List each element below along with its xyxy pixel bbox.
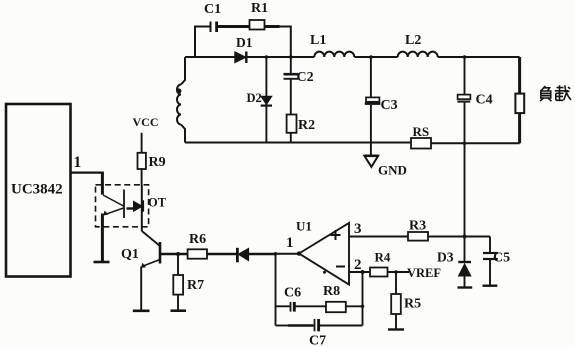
- svg-text:R3: R3: [409, 219, 426, 234]
- svg-text:C3: C3: [381, 98, 398, 113]
- svg-text:3: 3: [354, 221, 362, 237]
- svg-text:C2: C2: [297, 70, 314, 85]
- svg-text:R6: R6: [189, 232, 206, 247]
- svg-text:L2: L2: [405, 33, 421, 48]
- svg-text:R9: R9: [149, 155, 166, 170]
- svg-text:D3: D3: [437, 250, 454, 265]
- svg-text:GND: GND: [378, 163, 407, 178]
- svg-text:VREF: VREF: [407, 266, 441, 280]
- svg-text:R1: R1: [251, 1, 268, 16]
- svg-text:D2: D2: [247, 91, 262, 105]
- svg-text:R4: R4: [375, 250, 391, 265]
- svg-text:C6: C6: [284, 286, 301, 301]
- svg-text:R5: R5: [404, 297, 421, 312]
- svg-text:C1: C1: [204, 2, 221, 17]
- svg-text:L1: L1: [310, 33, 326, 48]
- svg-text:R8: R8: [323, 284, 340, 299]
- svg-text:RS: RS: [413, 124, 430, 139]
- svg-text:1: 1: [286, 235, 294, 251]
- svg-text:D1: D1: [236, 35, 253, 50]
- svg-text:2: 2: [354, 257, 362, 273]
- svg-text:R2: R2: [298, 118, 315, 133]
- svg-text:C4: C4: [476, 93, 493, 108]
- svg-text:1: 1: [74, 154, 82, 171]
- svg-text:Q1: Q1: [121, 247, 139, 262]
- svg-text:C5: C5: [493, 251, 510, 266]
- svg-text:UC3842: UC3842: [11, 182, 63, 198]
- svg-text:U1: U1: [296, 219, 312, 234]
- svg-text:R7: R7: [187, 278, 204, 293]
- svg-text:VCC: VCC: [133, 115, 159, 129]
- svg-text:C7: C7: [309, 334, 326, 347]
- svg-text:OT: OT: [148, 196, 167, 210]
